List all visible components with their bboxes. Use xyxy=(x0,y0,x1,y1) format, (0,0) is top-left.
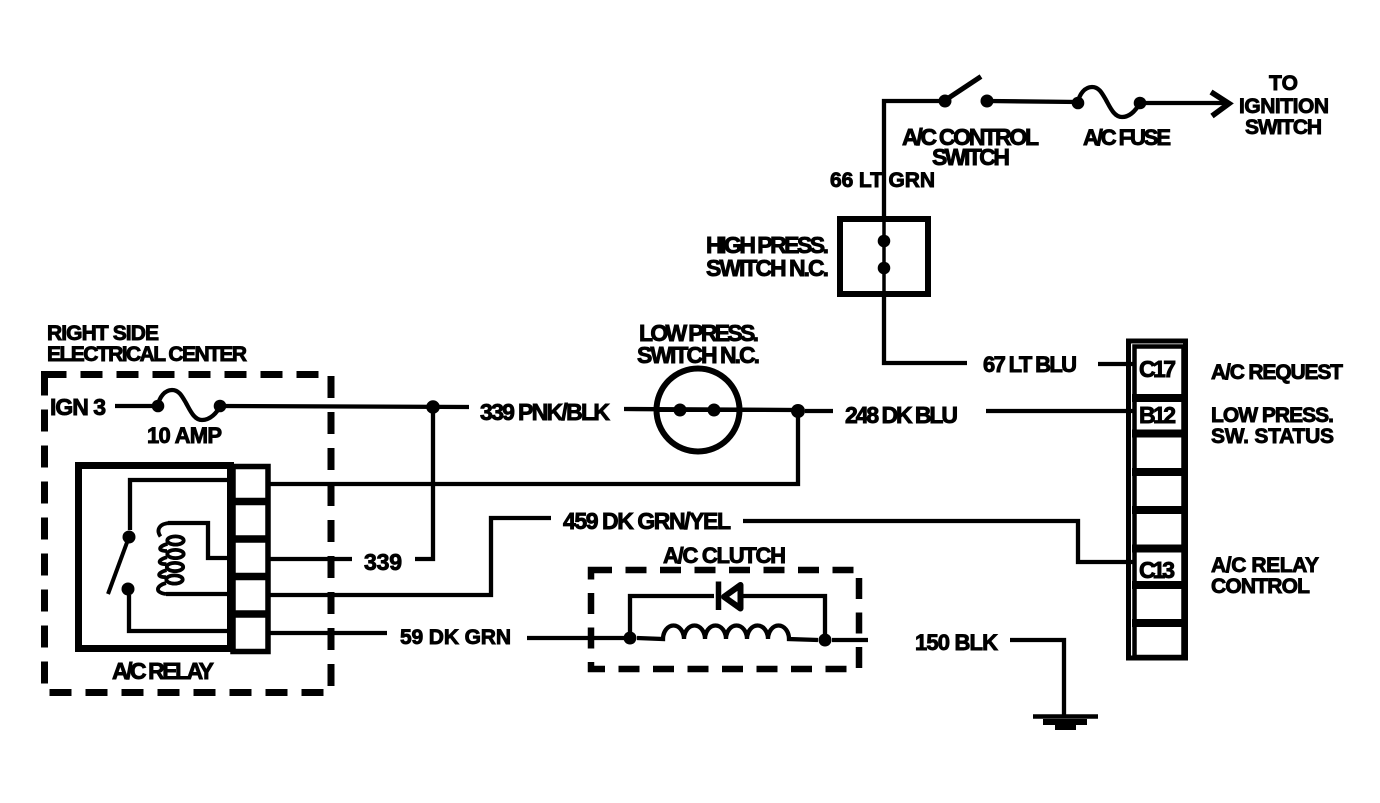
high press switch box xyxy=(840,219,928,294)
svg-text:C13: C13 xyxy=(1139,557,1175,583)
svg-text:67 LT BLU: 67 LT BLU xyxy=(983,352,1077,377)
wire 67 LT BLU to C17 xyxy=(1098,362,1133,366)
relay body xyxy=(79,466,231,649)
wire clutch diode branch xyxy=(630,596,714,636)
svg-text:459 DK GRN/YEL: 459 DK GRN/YEL xyxy=(563,508,731,534)
wire 459 to C13 xyxy=(743,521,1133,562)
junction 248 xyxy=(791,404,805,418)
svg-text:LOW PRESS.: LOW PRESS. xyxy=(1211,404,1334,427)
wire fuse to junction 339 xyxy=(220,406,469,407)
A/C clutch dashed box xyxy=(591,570,859,669)
svg-text:A/C REQUEST: A/C REQUEST xyxy=(1211,361,1343,384)
10 AMP fuse element xyxy=(158,390,220,420)
connector cells xyxy=(1132,347,1184,658)
connector column outer xyxy=(1129,341,1186,658)
diode triangle xyxy=(724,585,741,609)
diode bar xyxy=(716,582,722,611)
relay coil top lead to pin 3 xyxy=(168,523,233,558)
clutch dots xyxy=(624,632,637,645)
wire IGN 3 to fuse xyxy=(115,404,152,408)
relay coil bottom lead to pin 4 xyxy=(166,592,233,596)
svg-text:B12: B12 xyxy=(1139,402,1176,428)
svg-text:ELECTRICAL CENTER: ELECTRICAL CENTER xyxy=(47,343,247,366)
svg-text:248 DK BLU: 248 DK BLU xyxy=(845,402,958,428)
relay coil xyxy=(158,523,184,594)
A/C fuse dots xyxy=(1072,97,1085,110)
wire fuse to ignition switch arrow xyxy=(1140,101,1227,105)
wire relay pin 3 stub 339 xyxy=(270,557,352,561)
svg-text:RIGHT SIDE: RIGHT SIDE xyxy=(47,322,159,345)
right side electrical center dashed box xyxy=(45,375,332,693)
svg-text:IGNITION: IGNITION xyxy=(1239,95,1329,118)
svg-text:SWITCH N.C.: SWITCH N.C. xyxy=(706,255,829,281)
relay switch bottom to pin 5 xyxy=(129,595,230,631)
wire 59 DK GRN to clutch xyxy=(527,636,630,640)
svg-text:59 DK GRN: 59 DK GRN xyxy=(400,626,511,649)
svg-text:A/C CLUTCH: A/C CLUTCH xyxy=(663,543,786,568)
svg-text:339 PNK/BLK: 339 PNK/BLK xyxy=(480,399,610,425)
svg-text:SWITCH: SWITCH xyxy=(932,144,1010,170)
svg-text:66 LT GRN: 66 LT GRN xyxy=(830,169,935,192)
wire 339 vertical drop xyxy=(415,407,433,559)
svg-text:10 AMP: 10 AMP xyxy=(147,423,222,448)
arrowhead to ignition switch xyxy=(1211,92,1229,116)
relay switch blade xyxy=(108,537,129,594)
svg-text:339: 339 xyxy=(364,549,402,575)
svg-text:SWITCH: SWITCH xyxy=(1245,116,1322,139)
svg-text:C17: C17 xyxy=(1139,356,1176,382)
svg-text:SW. STATUS: SW. STATUS xyxy=(1211,425,1334,448)
svg-text:A/C FUSE: A/C FUSE xyxy=(1083,125,1171,150)
relay switch dots xyxy=(123,531,136,544)
wire clutch right dot to 150 BLK xyxy=(832,638,868,642)
wire 150 BLK to ground xyxy=(1010,640,1064,716)
svg-text:CONTROL: CONTROL xyxy=(1211,575,1310,598)
A/C fuse element xyxy=(1078,87,1140,117)
junction 339 xyxy=(426,400,440,414)
relay internal: pin1 to switch xyxy=(130,480,227,530)
clutch inductor xyxy=(637,626,818,641)
A/C control switch dots xyxy=(939,95,952,108)
low press switch circle xyxy=(657,369,740,452)
wire through low press switch xyxy=(657,408,797,412)
svg-text:A/C RELAY: A/C RELAY xyxy=(1211,554,1319,577)
svg-text:TO: TO xyxy=(1269,72,1298,95)
wire junction to 248 DK BLU xyxy=(805,409,833,413)
high press internal wire xyxy=(882,222,886,293)
low press switch dots xyxy=(674,404,687,417)
relay pin column cells xyxy=(231,467,269,652)
high press switch dots xyxy=(878,235,891,248)
wire relay pin 5 to 59 DK GRN xyxy=(270,631,387,635)
wire 66 LT GRN riser and top run xyxy=(884,101,945,218)
wire 339 PNK/BLK to low press switch xyxy=(624,409,797,410)
svg-text:IGN 3: IGN 3 xyxy=(50,394,106,420)
svg-text:A/C RELAY: A/C RELAY xyxy=(112,658,214,684)
10 AMP fuse dots xyxy=(152,400,165,413)
wire 248 DK BLU to B12 xyxy=(986,409,1133,413)
wire high press switch to 67 LT BLU xyxy=(884,296,967,363)
svg-text:SWITCH N.C.: SWITCH N.C. xyxy=(637,342,760,368)
wire junction drop to relay pin 1 xyxy=(270,411,798,484)
wire relay pin 4 to 459 corner xyxy=(270,518,551,595)
ground xyxy=(1033,717,1098,728)
svg-text:150 BLK: 150 BLK xyxy=(915,630,998,655)
A/C control switch blade xyxy=(944,77,981,102)
wire switch to fuse xyxy=(988,101,1078,102)
